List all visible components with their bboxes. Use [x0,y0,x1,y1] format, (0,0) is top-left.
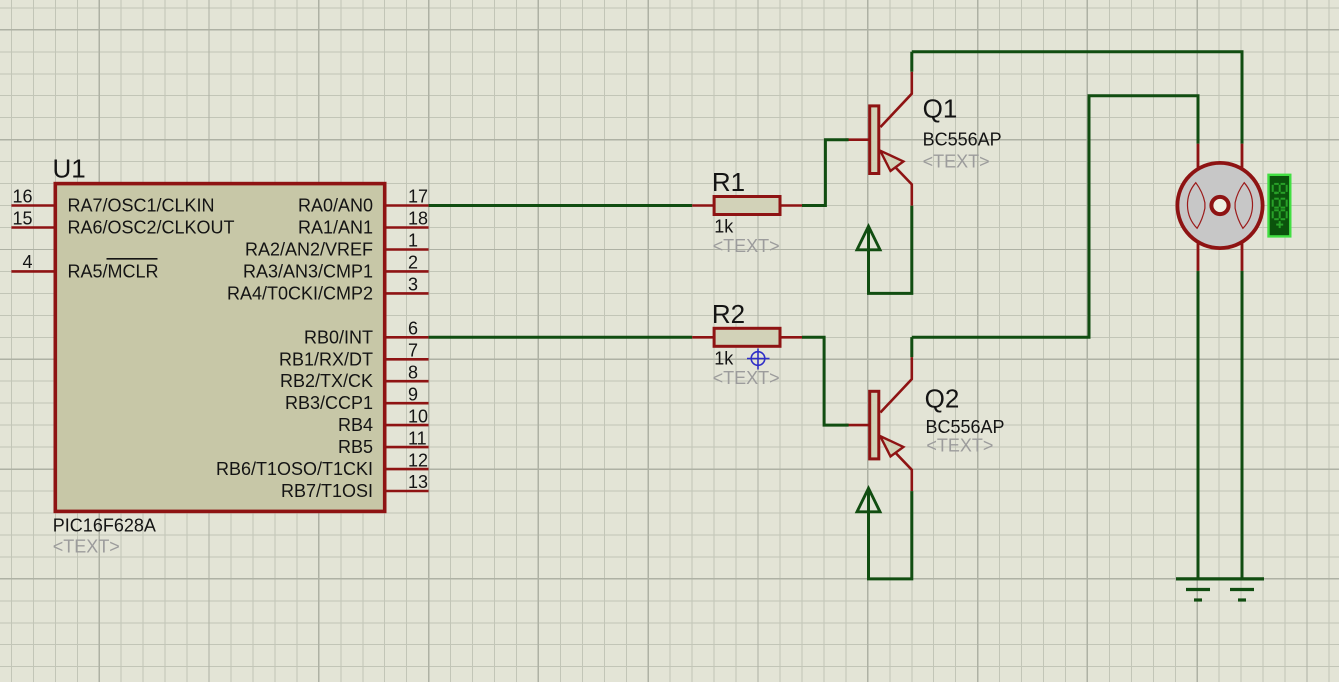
svg-text:17: 17 [408,187,428,207]
svg-text:RA0/AN0: RA0/AN0 [298,196,373,216]
svg-text:R2: R2 [712,299,745,329]
svg-text:4: 4 [22,252,32,272]
svg-text:1: 1 [408,231,418,251]
svg-text:6: 6 [408,319,418,339]
svg-text:<TEXT>: <TEXT> [926,435,993,455]
svg-text:RA6/OSC2/CLKOUT: RA6/OSC2/CLKOUT [68,218,235,238]
svg-text:BC556AP: BC556AP [923,129,1002,149]
svg-text:RB5: RB5 [338,437,373,457]
svg-text:RA3/AN3/CMP1: RA3/AN3/CMP1 [243,261,373,281]
svg-text:2: 2 [408,253,418,273]
svg-text:<TEXT>: <TEXT> [713,236,780,256]
svg-text:16: 16 [12,186,32,206]
svg-text:RA4/T0CKI/CMP2: RA4/T0CKI/CMP2 [227,283,373,303]
svg-text:3: 3 [408,275,418,295]
svg-text:10: 10 [408,406,428,426]
svg-text:RA1/AN1: RA1/AN1 [298,218,373,238]
svg-text:12: 12 [408,450,428,470]
svg-text:PIC16F628A: PIC16F628A [53,516,156,536]
svg-text:RB2/TX/CK: RB2/TX/CK [280,371,373,391]
svg-text:<TEXT>: <TEXT> [923,151,990,171]
svg-text:R1: R1 [712,167,745,197]
svg-text:9: 9 [408,384,418,404]
svg-text:RB3/CCP1: RB3/CCP1 [285,393,373,413]
svg-text:U1: U1 [53,153,86,183]
svg-text:<TEXT>: <TEXT> [53,537,120,557]
svg-text:11: 11 [408,428,427,448]
svg-text:BC556AP: BC556AP [926,417,1005,437]
svg-text:<TEXT>: <TEXT> [713,368,780,388]
svg-text:Q1: Q1 [923,94,958,124]
svg-text:RA2/AN2/VREF: RA2/AN2/VREF [245,240,373,260]
svg-text:13: 13 [408,472,428,492]
svg-text:RB0/INT: RB0/INT [304,327,373,347]
svg-text:RB6/T1OSO/T1CKI: RB6/T1OSO/T1CKI [216,459,373,479]
svg-text:1k: 1k [714,217,734,237]
svg-text:1k: 1k [714,348,734,368]
svg-text:RB4: RB4 [338,415,373,435]
svg-text:Q2: Q2 [925,383,960,413]
svg-text:8: 8 [408,362,418,382]
svg-text:RA7/OSC1/CLKIN: RA7/OSC1/CLKIN [68,196,215,216]
svg-text:15: 15 [12,208,32,228]
svg-text:RA5/MCLR: RA5/MCLR [68,261,159,281]
svg-text:RB1/RX/DT: RB1/RX/DT [279,349,373,369]
svg-text:7: 7 [408,341,418,361]
svg-text:RB7/T1OSI: RB7/T1OSI [281,481,373,501]
svg-text:18: 18 [408,209,428,229]
